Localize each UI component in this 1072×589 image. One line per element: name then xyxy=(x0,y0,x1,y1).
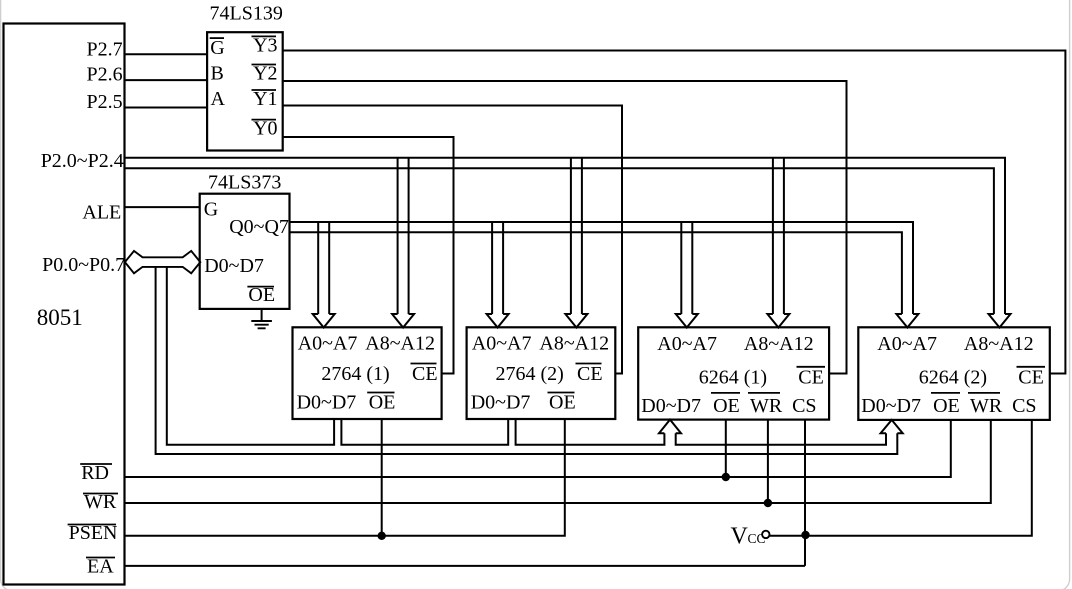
junction PSEN / 2764(1) OE xyxy=(378,532,386,540)
svg-text:EA: EA xyxy=(87,556,114,578)
bus drop A0~A7 into 2764(1) xyxy=(313,222,335,328)
svg-text:Y2: Y2 xyxy=(253,63,277,85)
wire Y3 to 6264(2) CE xyxy=(283,51,1066,374)
junction VCC / CS / EA xyxy=(801,531,809,539)
svg-text:P2.0~P2.4: P2.0~P2.4 xyxy=(41,150,124,172)
arrowhead A0~A7 into 6264(2) xyxy=(896,314,918,328)
svg-text:6264 (1): 6264 (1) xyxy=(699,367,767,389)
svg-text:RD: RD xyxy=(81,462,109,484)
svg-text:74LS139: 74LS139 xyxy=(210,3,283,25)
svg-text:6264 (2): 6264 (2) xyxy=(919,367,987,389)
svg-text:D0~D7: D0~D7 xyxy=(204,255,264,277)
svg-text:CE: CE xyxy=(577,363,603,385)
junction RD / 6264(1) OE xyxy=(722,473,730,481)
svg-text:A8~A12: A8~A12 xyxy=(964,333,1034,355)
svg-text:OE: OE xyxy=(549,391,576,413)
svg-text:8051: 8051 xyxy=(37,305,83,330)
svg-text:D0~D7: D0~D7 xyxy=(471,391,531,413)
svg-text:CS: CS xyxy=(792,395,816,417)
bus P2.0~P2.4 lower line xyxy=(124,168,994,314)
svg-text:Y1: Y1 xyxy=(253,88,277,110)
wire VCC to 6264(2) CS xyxy=(770,420,1032,536)
svg-text:CE: CE xyxy=(798,367,824,389)
svg-text:A8~A12: A8~A12 xyxy=(539,333,609,355)
svg-text:Y3: Y3 xyxy=(253,34,277,56)
wire P2.5 to 74LS139 A xyxy=(124,107,207,109)
svg-text:D0~D7: D0~D7 xyxy=(297,391,357,413)
VCC terminal circle xyxy=(762,531,769,538)
data bus lower line xyxy=(156,267,898,454)
svg-text:A0~A7: A0~A7 xyxy=(877,333,937,355)
svg-text:CE: CE xyxy=(412,363,438,385)
svg-text:CE: CE xyxy=(1018,367,1044,389)
wire 2764(1) OE to PSEN net xyxy=(381,419,383,536)
svg-text:A0~A7: A0~A7 xyxy=(657,333,717,355)
junction WR / 6264(1) WR xyxy=(764,499,772,507)
wire P2.6 to 74LS139 B xyxy=(124,79,207,81)
wire RD to 6264(2) OE xyxy=(124,420,951,477)
SRAM 6264 (1) U6 xyxy=(638,327,829,419)
arrowhead D0~D7 into 6264(1) xyxy=(659,420,681,434)
bus Q0~Q7 upper line xyxy=(290,222,914,314)
arrowhead D0~D7 into 6264(2) xyxy=(881,420,903,433)
arrowhead A8~A12 into 6264(2) xyxy=(989,314,1011,328)
svg-text:A8~A12: A8~A12 xyxy=(744,333,814,355)
svg-text:P2.7: P2.7 xyxy=(87,39,123,61)
wire WR to 6264(2) WR xyxy=(124,420,991,503)
svg-text:B: B xyxy=(211,63,224,85)
svg-text:D0~D7: D0~D7 xyxy=(861,395,921,417)
svg-text:A: A xyxy=(211,88,226,110)
svg-text:Q0~Q7: Q0~Q7 xyxy=(229,216,289,238)
bidirectional data arrow P0.0~P0.7 to 74LS373 D0~D7 xyxy=(125,251,200,273)
wire Y1 to 2764(2) CE xyxy=(283,106,622,374)
svg-text:A0~A7: A0~A7 xyxy=(298,333,358,355)
svg-text:74LS373: 74LS373 xyxy=(208,172,281,194)
EPROM 2764 (1) U4 xyxy=(293,327,442,419)
svg-text:G: G xyxy=(204,199,218,221)
wire 6264(1) WR to WR net xyxy=(767,420,769,503)
wire ALE to 74LS373 G xyxy=(124,206,200,208)
svg-text:P2.5: P2.5 xyxy=(87,91,123,113)
ground xyxy=(251,321,272,328)
svg-text:CS: CS xyxy=(1012,395,1036,417)
bus P2.0~P2.4 upper line xyxy=(124,158,1005,314)
wire 74LS373 OE pin to ground xyxy=(261,309,263,321)
bus Q0~Q7 lower line xyxy=(290,232,902,314)
wire PSEN to 2764(2) OE xyxy=(124,419,565,536)
bus drop A0~A7 into 6264(1) xyxy=(676,222,698,328)
bus drop A8~A12 into 6264(1) xyxy=(767,158,789,328)
wire 6264(1) CS / EA vertical xyxy=(804,420,806,566)
8051 MCU U1 xyxy=(4,24,125,585)
EPROM 2764 (2) U5 xyxy=(467,327,616,419)
wire EA xyxy=(124,565,805,567)
svg-text:OE: OE xyxy=(369,391,396,413)
svg-text:A8~A12: A8~A12 xyxy=(365,333,435,355)
svg-text:A0~A7: A0~A7 xyxy=(472,333,532,355)
wire Y2 to 6264(1) CE xyxy=(283,81,847,374)
svg-text:D0~D7: D0~D7 xyxy=(641,395,701,417)
svg-text:V: V xyxy=(731,524,749,550)
svg-text:ALE: ALE xyxy=(82,201,121,223)
data bus upper line with stubs into memories xyxy=(167,267,886,445)
svg-text:WR: WR xyxy=(970,395,1003,417)
svg-text:Y0: Y0 xyxy=(253,118,277,140)
svg-text:OE: OE xyxy=(713,395,740,417)
decoder 74LS139 U2 xyxy=(207,32,283,150)
bus drop A8~A12 into 2764(1) xyxy=(392,158,414,328)
svg-text:P2.6: P2.6 xyxy=(87,64,123,86)
wire P2.7 to 74LS139 G xyxy=(124,53,207,55)
svg-text:2764 (1): 2764 (1) xyxy=(321,363,389,385)
SRAM 6264 (2) U7 xyxy=(858,327,1050,420)
wire Y0 to 2764(1) CE xyxy=(283,137,454,374)
bus drop A0~A7 into 2764(2) xyxy=(487,222,509,328)
svg-text:WR: WR xyxy=(750,395,783,417)
svg-text:G: G xyxy=(210,37,224,59)
svg-text:2764 (2): 2764 (2) xyxy=(496,363,564,385)
wire 6264(1) OE to RD net xyxy=(725,420,727,477)
svg-text:P0.0~P0.7: P0.0~P0.7 xyxy=(42,254,125,276)
latch 74LS373 U3 xyxy=(200,194,290,309)
bus drop A8~A12 into 2764(2) xyxy=(565,158,587,328)
svg-text:OE: OE xyxy=(933,395,960,417)
